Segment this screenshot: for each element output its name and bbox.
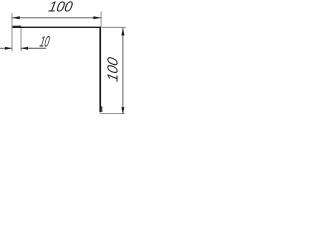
svg-text:10: 10 <box>38 33 51 50</box>
profile right leg edge <box>99 27 101 113</box>
arrow bottom end of right dimension pointing down <box>121 107 124 114</box>
dimension line 10 left tail <box>0 47 12 49</box>
arrow outside-right pointing left at x=21 <box>21 47 28 50</box>
svg-text:100: 100 <box>105 55 121 83</box>
profile top flange edge <box>12 26 101 28</box>
dimension line 10 right tail <box>21 47 46 49</box>
extension line top right horizontal <box>102 26 126 28</box>
extension line x=21 <box>20 28 22 51</box>
extension line left x=12 <box>11 13 13 51</box>
arrow right end of top dimension <box>93 16 101 19</box>
arrow left end of top dimension <box>12 16 20 19</box>
svg-text:100: 100 <box>47 0 74 15</box>
arrow top end of right dimension pointing up <box>121 28 124 36</box>
dimension line 100 right vertical <box>122 28 124 114</box>
extension line above corner x=101 <box>100 12 102 27</box>
profile bottom hem <box>101 106 103 112</box>
extension line bottom right horizontal <box>100 112 125 114</box>
arrow outside-left pointing right at x=12 <box>5 47 12 50</box>
dimension line 100 top <box>12 17 101 19</box>
profile top hem (10 unit fold) <box>12 25 21 27</box>
